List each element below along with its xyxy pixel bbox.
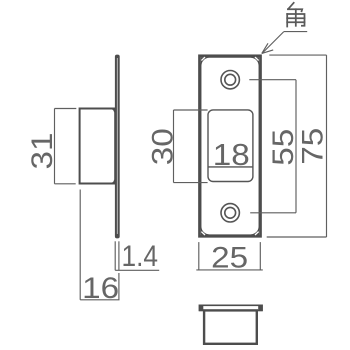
- latch opening: [208, 110, 253, 182]
- dimension 75 bracket: [267, 55, 327, 237]
- corner fill top-right: [251, 57, 260, 66]
- leader line for corner label: [262, 32, 307, 54]
- side view: latch case box: [80, 109, 116, 184]
- fillet at box/plate top junction: [111, 109, 115, 113]
- corner fill top-left: [201, 57, 210, 66]
- bottom view: case body: [204, 310, 257, 343]
- svg-text:25: 25: [211, 241, 248, 274]
- dimension 55 bracket: [249, 80, 296, 213]
- svg-text:75: 75: [296, 128, 329, 165]
- face plate edge highlight: [116, 58, 118, 234]
- dimension 25 lines: [196, 242, 262, 270]
- corner fill bottom-right: [251, 226, 260, 235]
- svg-text:18: 18: [213, 137, 250, 172]
- upper screw hole: [221, 71, 239, 89]
- front view: plate outline: [200, 56, 261, 237]
- dimension 31 bracket: [55, 109, 77, 184]
- dimension 16 lines: [80, 190, 119, 300]
- svg-text:30: 30: [146, 128, 179, 165]
- svg-text:55: 55: [267, 129, 300, 166]
- bottom view: flange bar: [200, 305, 263, 310]
- corner fill bottom-left: [201, 226, 210, 235]
- svg-text:1.4: 1.4: [122, 240, 159, 273]
- svg-text:31: 31: [26, 133, 59, 170]
- side view: face plate (edge-on bar): [115, 55, 120, 239]
- front view: plate inner rounded line: [201, 57, 259, 235]
- kanji label 角 (square corner) drawn as strokes: [287, 3, 304, 27]
- svg-text:16: 16: [82, 272, 119, 305]
- dimension 30 bracket: [174, 110, 208, 183]
- bottom view: flange end caps: [199, 305, 204, 312]
- lower screw hole: [221, 204, 239, 222]
- latch bolt edge line: [208, 166, 253, 168]
- dimension 1.4 lines: [115, 241, 159, 270]
- fillet at box/plate bottom junction: [111, 180, 115, 184]
